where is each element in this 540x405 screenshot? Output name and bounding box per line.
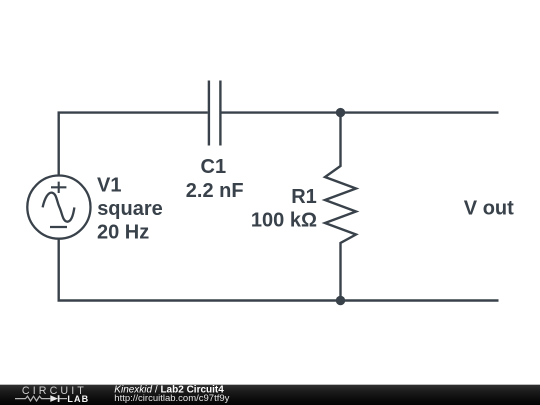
svg-text:LAB: LAB — [67, 394, 89, 404]
svg-text:20 Hz: 20 Hz — [97, 221, 149, 243]
svg-text:V out: V out — [464, 198, 514, 220]
svg-text:R1: R1 — [291, 186, 317, 208]
svg-text:square: square — [97, 198, 163, 220]
svg-text:100 kΩ: 100 kΩ — [251, 210, 317, 232]
svg-text:C1: C1 — [201, 156, 227, 178]
svg-text:2.2 nF: 2.2 nF — [186, 180, 244, 202]
svg-text:V1: V1 — [97, 174, 121, 196]
svg-text:http://circuitlab.com/c97tf9y: http://circuitlab.com/c97tf9y — [114, 393, 229, 404]
